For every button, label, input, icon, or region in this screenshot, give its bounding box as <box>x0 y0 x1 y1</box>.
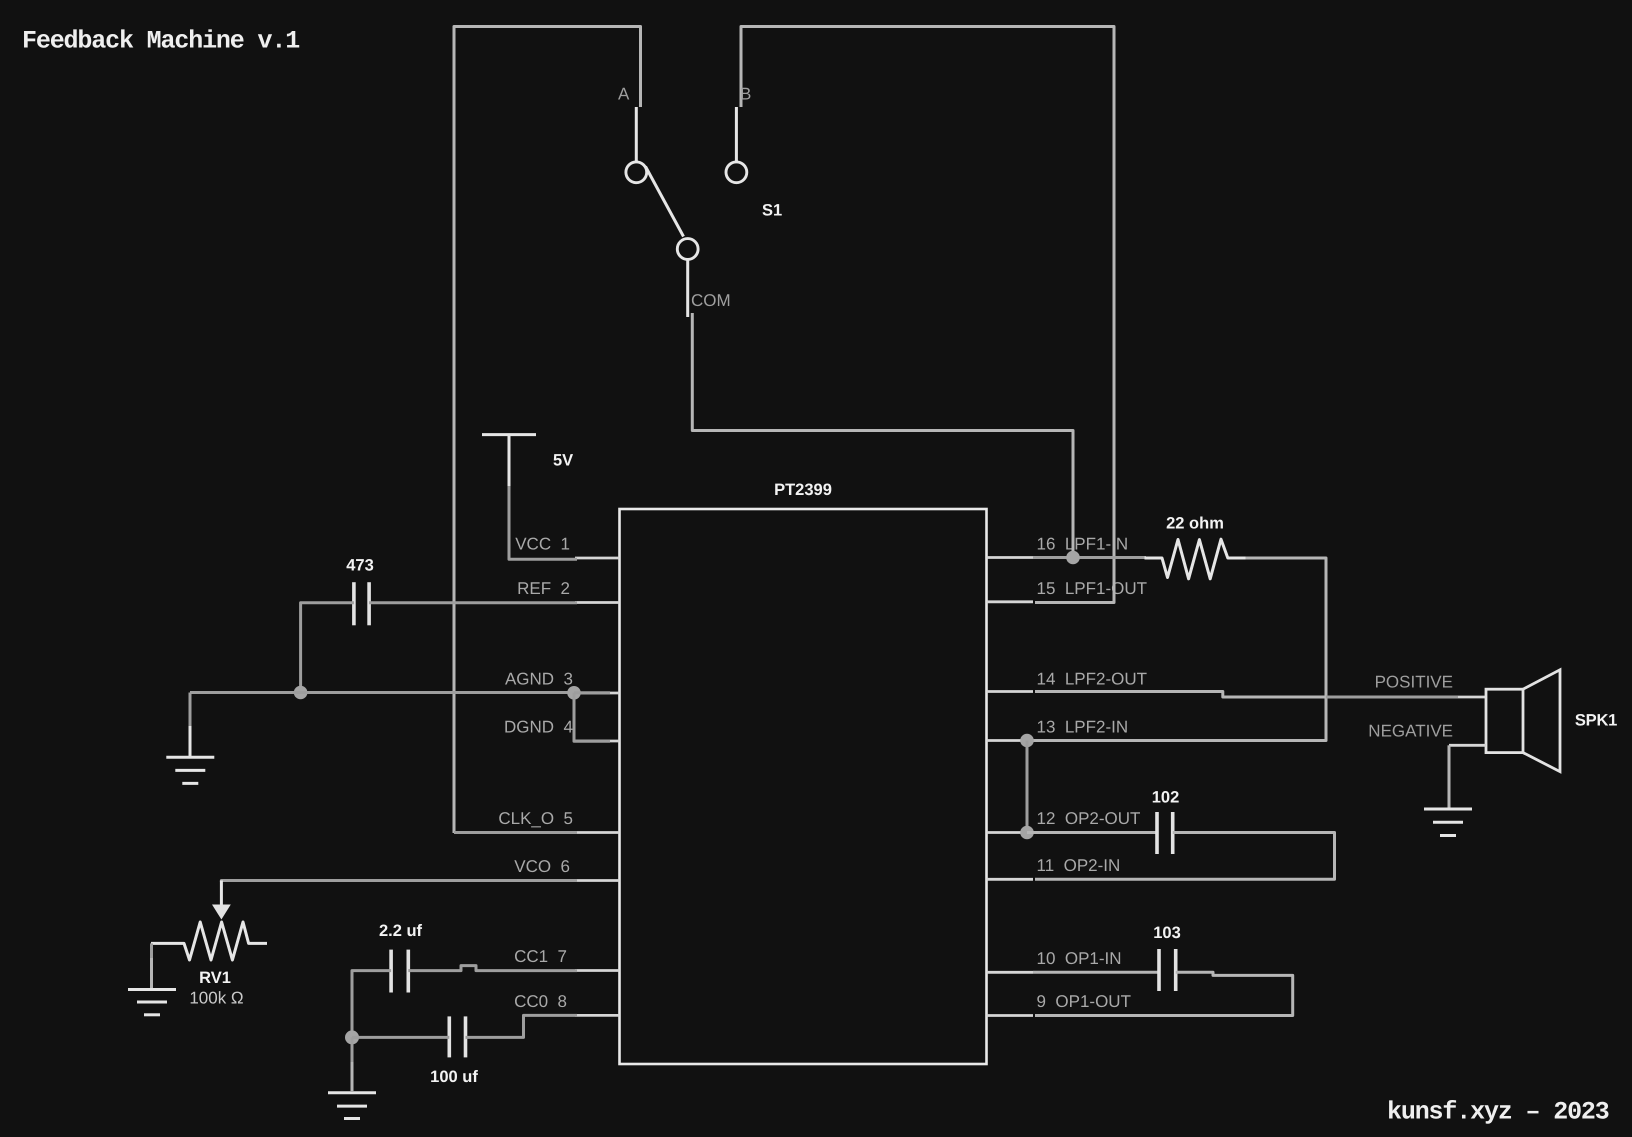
junction node LPF1-IN <box>1066 551 1080 565</box>
svg-text:9 OP1-OUT: 9 OP1-OUT <box>1037 992 1131 1011</box>
svg-text:11 OP2-IN: 11 OP2-IN <box>1037 856 1121 875</box>
svg-text:S1: S1 <box>762 202 782 220</box>
svg-text:10 OP1-IN: 10 OP1-IN <box>1037 949 1122 968</box>
pin 3 AGND stub <box>505 670 620 694</box>
svg-text:473: 473 <box>346 557 374 575</box>
wire LPF2-IN to OP2-OUT <box>1026 741 1029 833</box>
pin 13 LPF2-IN stub <box>987 718 1129 741</box>
wire capacitor 102 to OP2-IN <box>1035 833 1335 880</box>
pin 2 REF stub <box>517 579 619 603</box>
wire potentiometer to ground <box>150 943 153 960</box>
wire COM to LPF1-IN node <box>692 313 1073 558</box>
ground (100uf) <box>328 1093 376 1119</box>
wire junction to capacitor 100uf <box>352 1036 449 1039</box>
svg-text:Feedback Machine v.1: Feedback Machine v.1 <box>22 27 299 56</box>
5V supply symbol <box>482 435 573 487</box>
pin 10 OP1-IN stub <box>987 949 1122 972</box>
svg-text:REF 2: REF 2 <box>517 579 570 598</box>
svg-text:100k Ω: 100k Ω <box>189 989 243 1008</box>
capacitor 2.2 uf <box>379 922 423 993</box>
wire capacitor 100uf to CC0 pin 8 <box>466 1015 578 1037</box>
svg-text:22 ohm: 22 ohm <box>1166 515 1224 533</box>
switch S1 COM circle <box>677 239 698 260</box>
pin 16 LPF1-IN stub <box>987 535 1129 558</box>
capacitor 100 uf <box>430 1016 478 1086</box>
svg-text:SPK1: SPK1 <box>1575 712 1617 730</box>
switch S1 lever <box>646 167 684 237</box>
svg-text:5V: 5V <box>553 452 573 470</box>
wire AGND to DGND pin 4 <box>574 693 610 741</box>
wire speaker negative to ground <box>1448 745 1451 808</box>
svg-text:B: B <box>740 85 751 104</box>
svg-text:NEGATIVE: NEGATIVE <box>1368 722 1453 741</box>
switch S1 terminal A lead <box>635 107 638 162</box>
resistor 22 ohm <box>1145 515 1246 579</box>
svg-text:2.2 uf: 2.2 uf <box>379 922 423 940</box>
pin 7 CC1 stub <box>514 947 619 971</box>
svg-text:102: 102 <box>1152 789 1180 807</box>
junction node AGND <box>567 686 581 700</box>
svg-text:CC0 8: CC0 8 <box>514 992 567 1011</box>
wire ground drop (left ground) <box>189 693 192 728</box>
wire net A to CLK_O pin 5 <box>454 831 577 834</box>
svg-text:RV1: RV1 <box>199 969 231 987</box>
pin 15 LPF1-OUT stub <box>987 579 1148 602</box>
wire VCO pin 6 to potentiometer wiper <box>221 881 577 883</box>
ground (speaker) <box>1424 809 1472 836</box>
pin 4 DGND stub <box>504 718 619 742</box>
svg-text:VCO 6: VCO 6 <box>514 857 570 876</box>
wire AGND into pin 3 <box>574 691 610 694</box>
svg-text:13 LPF2-IN: 13 LPF2-IN <box>1037 718 1129 737</box>
svg-text:103: 103 <box>1153 924 1181 942</box>
wire ground net horizontal <box>190 691 574 694</box>
svg-text:POSITIVE: POSITIVE <box>1375 673 1453 692</box>
junction node LPF2-IN <box>1020 734 1034 748</box>
capacitor 103 <box>1153 924 1181 991</box>
wire LPF2-OUT to speaker positive <box>1035 692 1327 698</box>
capacitor 473 <box>346 557 374 626</box>
svg-text:VCC 1: VCC 1 <box>515 535 570 554</box>
pin 5 CLK_O stub <box>498 809 619 833</box>
pin 1 VCC stub <box>515 535 619 559</box>
speaker SPK1 <box>1486 670 1617 772</box>
junction node CC0 net <box>345 1030 359 1044</box>
wire capacitor 103 to OP1-OUT <box>1035 972 1293 1015</box>
wire junction down to ground <box>351 1037 354 1063</box>
pin 12 OP2-OUT stub <box>987 809 1141 833</box>
switch S1 terminal B lead <box>735 107 738 162</box>
svg-text:kunsf.xyz – 2023: kunsf.xyz – 2023 <box>1387 1098 1609 1127</box>
switch S1 terminal A circle <box>626 162 647 183</box>
wire capacitor 473 left to ground node <box>301 603 354 693</box>
svg-text:14 LPF2-OUT: 14 LPF2-OUT <box>1037 670 1148 689</box>
pin 11 OP2-IN stub <box>987 856 1121 879</box>
capacitor 102 <box>1152 789 1180 855</box>
wire capacitor 473 to REF pin 2 <box>369 601 577 604</box>
pin 9 OP1-OUT stub <box>987 992 1131 1016</box>
speaker SPK1 negative pin stub <box>1449 744 1486 747</box>
svg-text:100 uf: 100 uf <box>430 1068 478 1086</box>
pin 6 VCO stub <box>514 857 619 881</box>
pin 8 CC0 stub <box>514 992 619 1015</box>
wire 5V to VCC pin 1 <box>509 486 577 559</box>
svg-text:COM: COM <box>691 291 731 310</box>
wire resistor to LPF2-IN <box>1033 558 1326 741</box>
switch S1 COM lead <box>686 259 689 317</box>
ground (RV1) <box>128 990 176 1015</box>
wire capacitor 2.2uf to CC1 pin 7 <box>408 966 577 971</box>
wire net A top <box>454 27 641 834</box>
svg-text:AGND 3: AGND 3 <box>505 670 573 689</box>
speaker SPK1 positive pin stub <box>1458 696 1486 699</box>
pin 14 LPF2-OUT stub <box>987 670 1148 692</box>
svg-text:PT2399: PT2399 <box>774 481 832 499</box>
wire capacitor 2.2uf left to junction <box>352 971 391 1038</box>
junction node OP2-OUT <box>1020 826 1034 840</box>
svg-text:CC1 7: CC1 7 <box>514 947 567 966</box>
svg-text:15 LPF1-OUT: 15 LPF1-OUT <box>1037 579 1148 598</box>
potentiometer RV1 <box>151 881 267 1008</box>
wire OP2-OUT to capacitor 102 <box>1027 831 1157 834</box>
svg-text:A: A <box>618 85 630 104</box>
switch S1 terminal B circle <box>726 162 747 183</box>
wire LPF1-IN stub to resistor <box>1033 556 1146 559</box>
svg-text:12 OP2-OUT: 12 OP2-OUT <box>1037 809 1141 828</box>
junction node ground net <box>294 686 308 700</box>
ground (left) <box>166 757 214 783</box>
svg-text:DGND 4: DGND 4 <box>504 718 573 737</box>
svg-text:CLK_O 5: CLK_O 5 <box>498 809 573 828</box>
IC U1 PT2399 body <box>620 481 987 1064</box>
wire OP1-IN stub to capacitor 103 <box>1033 971 1159 974</box>
wire net B top <box>741 27 1114 603</box>
